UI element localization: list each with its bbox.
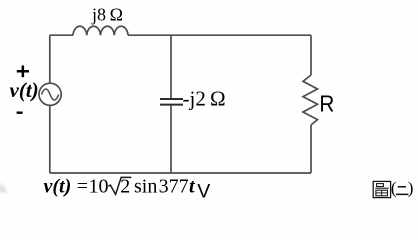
char er two strokes [396, 187, 408, 195]
wire middle upper vertical [170, 35, 172, 99]
svg-text:v(t): v(t) [10, 78, 39, 102]
label minus polarity [17, 112, 23, 114]
svg-text:=: = [77, 176, 88, 198]
wire top horizontal to right [128, 34, 311, 36]
wire middle lower vertical [170, 106, 172, 173]
char tu lower box [376, 190, 388, 196]
svg-text:v(t): v(t) [44, 176, 72, 198]
resistor R zigzag [303, 75, 318, 125]
label plus polarity [17, 65, 29, 77]
svg-text:2: 2 [120, 176, 130, 198]
wire top-left horizontal [50, 34, 73, 36]
char tu middle horizontal [375, 187, 389, 189]
svg-text:10: 10 [89, 176, 109, 198]
capacitor C1 top plate [160, 98, 183, 100]
svg-text:V: V [197, 180, 210, 202]
svg-text:-j2 Ω: -j2 Ω [183, 87, 226, 111]
wire left upper vertical [49, 35, 51, 83]
ac source V1 circle [39, 83, 61, 105]
wire bottom horizontal [50, 172, 311, 174]
svg-text:R: R [319, 90, 334, 116]
scan smudge left edge [0, 183, 7, 192]
svg-text:377: 377 [159, 176, 189, 198]
capacitor C1 bottom plate [160, 104, 183, 106]
wire right lower vertical [310, 125, 312, 173]
equation v(t)=10sqrt2 sin377t V [44, 176, 211, 203]
char tu lower inner lines [376, 192, 388, 194]
radical sign [108, 177, 131, 194]
wire right upper vertical [310, 35, 312, 75]
char tu outer box [373, 181, 390, 197]
ac source sine wave [42, 89, 59, 100]
char tu inner small box [377, 184, 384, 187]
wire left lower vertical [49, 106, 51, 173]
svg-text:): ) [408, 178, 414, 197]
figure label tu(2) chinese [373, 181, 390, 197]
svg-text:sin: sin [134, 176, 157, 198]
svg-text:j8 Ω: j8 Ω [91, 5, 123, 25]
svg-text:t: t [189, 176, 196, 198]
inductor L1 j8ohm [73, 26, 128, 35]
